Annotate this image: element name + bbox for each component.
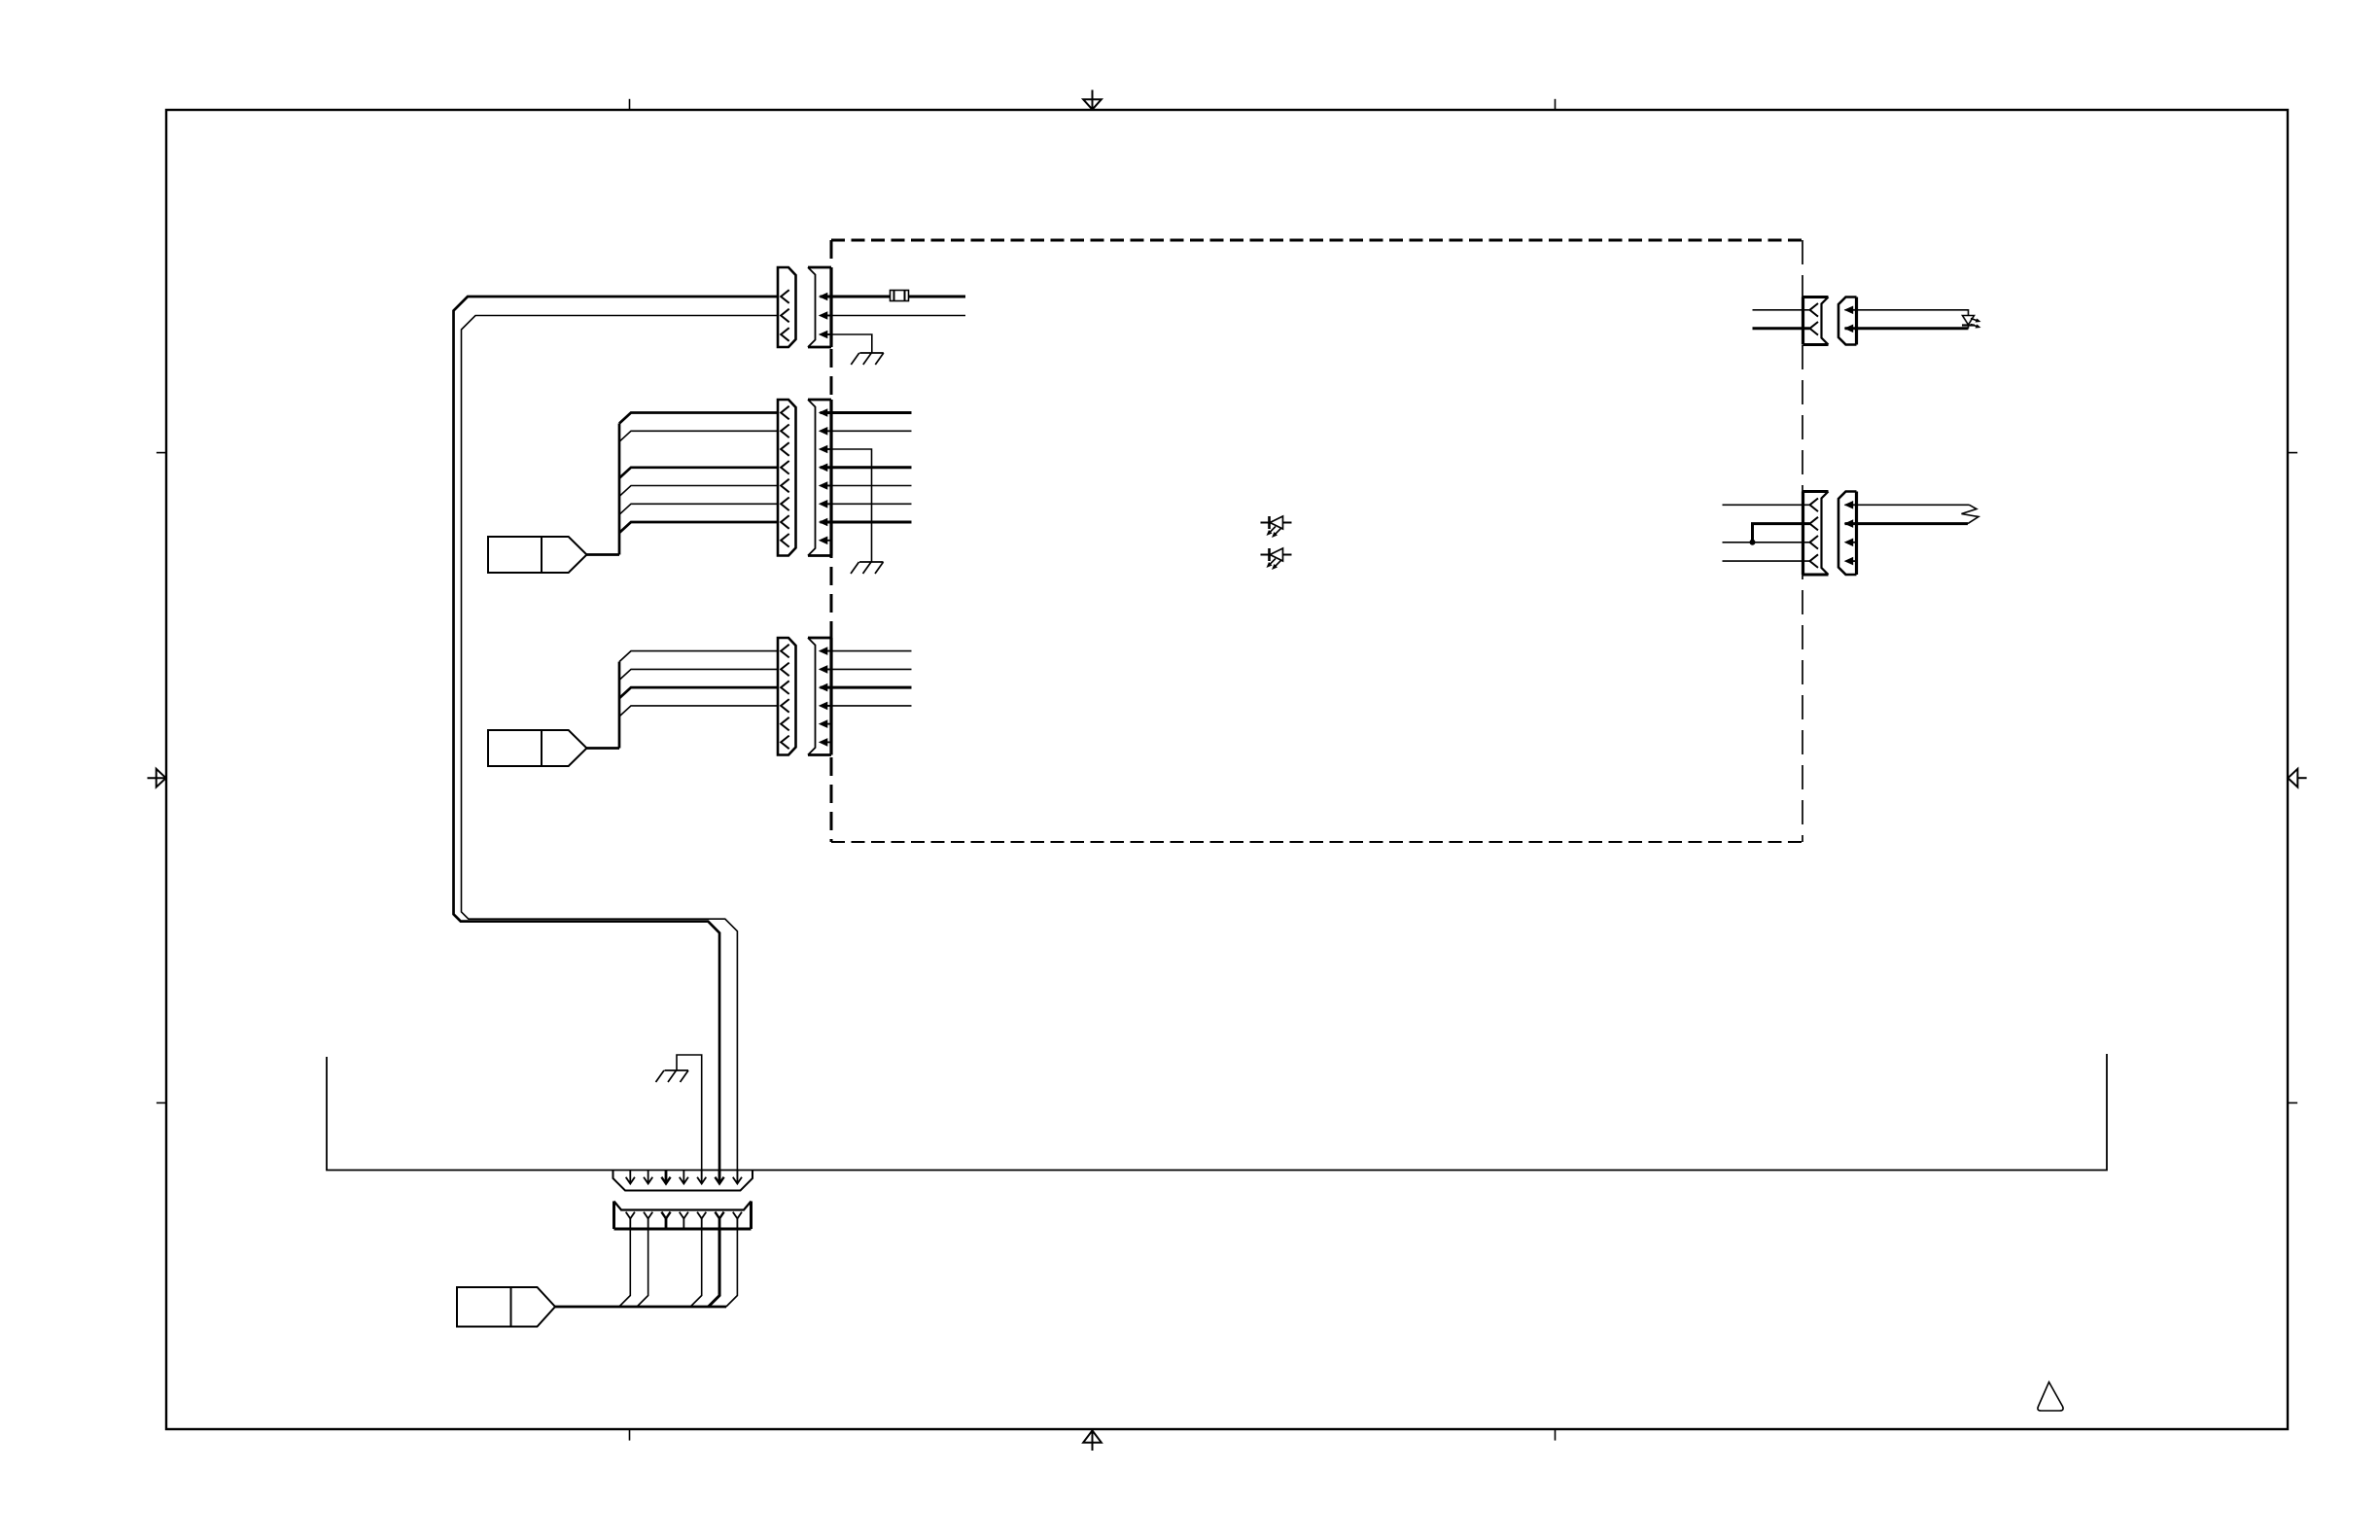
connector CN2 receptacle (unit side) [808, 400, 831, 556]
dashed unit boundary box [831, 240, 1802, 842]
connector CN3 receptacle (unit side) [808, 638, 831, 755]
wire CN2 pin4 right (thick) [821, 466, 912, 469]
wire CN1 pin2 long route to bottom connector (thin) [462, 316, 779, 1184]
wire P2 pin2 left jumper to pin3 net (thick) [1753, 524, 1810, 542]
wire CN1 pin3 to ground [821, 334, 872, 353]
wire CN4 pin7 drop [726, 1229, 738, 1307]
connector CN2 plug pin chevrons [781, 406, 789, 547]
wire CN2 pin7 right (thick) [821, 521, 912, 524]
wire P2 pin1 right [1845, 504, 1970, 506]
connector CN1 plug pin chevrons [781, 290, 789, 341]
connector CN3 plug pin chevrons [781, 645, 789, 749]
wire CN1 pin1 long route to bottom connector (thick) [454, 297, 779, 1183]
wire CN2 pin3 to ground [821, 449, 872, 562]
connector CN3 receptacle pin arrows [819, 647, 833, 746]
connector CN1 receptacle (unit side) [808, 267, 831, 347]
cable break symbol [1962, 505, 1979, 523]
connector P2 receptacle (unit side) [1803, 492, 1829, 576]
connector P2 plug (harness side) [1838, 492, 1857, 576]
wire P2 pin3 left stub [1723, 542, 1810, 543]
wire CN4 pin6 drop (thick) [709, 1229, 720, 1307]
fuse F1 [891, 291, 909, 301]
wire CN3 pin2 left [619, 669, 778, 680]
wire CN3 pin3 right (thick) [821, 686, 912, 689]
wire CN3 pin4 left [619, 706, 778, 717]
wire CN4 pin1 drop [619, 1229, 631, 1307]
wire CN2 pin6 left [619, 504, 778, 514]
wire CN3 pin3 left (thick) [619, 687, 778, 698]
wire CN1 pin1 right segment with fuse F1 [821, 296, 966, 298]
connector CN4 bottom part pin chevrons [626, 1212, 742, 1229]
connector CN2 plug (harness side) [778, 400, 796, 556]
registration mark top center [1083, 90, 1102, 110]
border quarter ticks [157, 99, 2297, 1441]
wire CN2 pin5 left [619, 486, 778, 497]
wire CN4 pin2 drop [637, 1229, 648, 1307]
junction dot [1750, 540, 1756, 545]
wire CN4 pin5 drop [690, 1229, 702, 1307]
registration mark right center [2288, 769, 2306, 787]
connector CN4 bottom part (cable side) [614, 1202, 752, 1230]
wire CN3 pin2 right [821, 668, 912, 670]
wire P1 pin2 left stub (thick) [1753, 327, 1810, 330]
wire CN2 pin1 right (thick) [821, 411, 912, 414]
revision triangle mark [2038, 1382, 2063, 1412]
wire bundle riser for CN3 [618, 662, 621, 749]
wire bundle to cable C4 (thick) [555, 1306, 726, 1309]
connector P2 plug pin arrows [1844, 501, 1858, 565]
wire CN3 pin1 right [821, 650, 912, 652]
registration mark left center [148, 769, 166, 787]
ground G2 [851, 562, 884, 574]
connector CN1 plug (harness side) [778, 267, 796, 347]
registration mark bottom center [1083, 1430, 1102, 1451]
LED D2 [1261, 548, 1292, 570]
wire CN2 pin4 left (thick) [619, 468, 778, 478]
connector P1 plug pin arrows [1844, 306, 1858, 333]
connector CN4 top part (unit side) [613, 1171, 753, 1191]
cable end C3 [488, 730, 587, 766]
LED D3 [1962, 316, 1981, 329]
wire P2 pin4 left stub [1723, 560, 1810, 562]
connector CN3 plug (harness side) [778, 638, 796, 755]
wire P1 pin1 left stub [1753, 309, 1810, 311]
wire CN2 pin1 left (thick) [619, 413, 778, 424]
wire CN2 pin5 right [821, 485, 912, 487]
wire CN2 pin2 left [619, 431, 778, 441]
wire bundle riser for CN2 [618, 424, 621, 555]
connector CN4 top part pin arrows [626, 1171, 742, 1184]
connector P1 plug (harness side) [1838, 297, 1857, 345]
bus wire U-run [327, 1054, 2107, 1171]
connector P1 receptacle pin chevrons [1810, 303, 1819, 335]
wire P1 pin1 right to LED D3 [1845, 310, 1969, 316]
connector CN1 receptacle pin arrows [819, 293, 833, 339]
wire CN1 pin2 right segment [821, 315, 966, 317]
ground G3 [656, 1070, 689, 1082]
cable end C4 [457, 1287, 555, 1327]
wire CN3 pin4 right [821, 705, 912, 707]
sheet border frame [166, 110, 2288, 1429]
wire P2 pin2 right (thick) [1845, 522, 1969, 525]
wire CN2 pin7 left (thick) [619, 522, 778, 533]
ground G1 [851, 353, 884, 365]
wire C2 tip to bundle (thick) [587, 553, 620, 556]
cable end C2 [488, 537, 587, 573]
wire CN2 pin2 right [821, 430, 912, 432]
wire P1 pin2 right to LED D3 (thick) [1845, 327, 1969, 330]
connector P1 receptacle (unit side) [1803, 297, 1829, 345]
wire ground drop to bottom connector pin5 [677, 1055, 702, 1183]
wire C3 tip to bundle (thick) [587, 747, 620, 750]
LED D1 [1261, 516, 1292, 538]
wire P2 pin1 left stub [1723, 504, 1810, 506]
wire CN2 pin6 right [821, 503, 912, 505]
wire CN3 pin1 left [619, 651, 778, 662]
connector P2 receptacle pin chevrons [1810, 499, 1819, 568]
connector CN2 receptacle pin arrows [819, 408, 833, 544]
